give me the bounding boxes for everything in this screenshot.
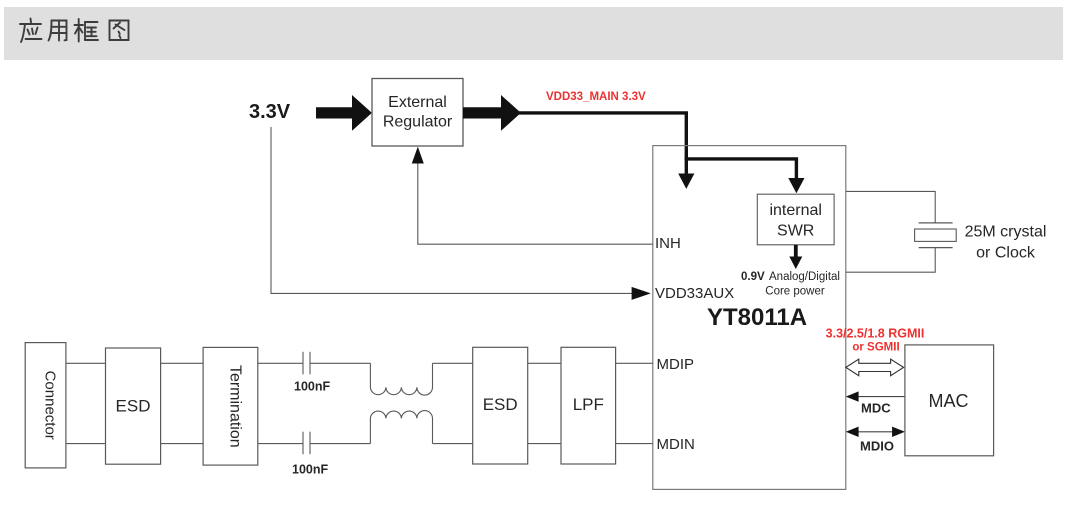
svg-text:MAC: MAC (929, 391, 969, 411)
svg-text:MDIO: MDIO (860, 439, 894, 454)
svg-text:Core power: Core power (765, 286, 825, 298)
svg-text:25M crystal: 25M crystal (965, 224, 1047, 241)
svg-text:Connector: Connector (42, 371, 59, 440)
svg-text:or SGMII: or SGMII (852, 342, 899, 354)
svg-text:3.3/2.5/1.8 RGMII: 3.3/2.5/1.8 RGMII (826, 327, 925, 341)
svg-text:VDD33_MAIN 3.3V: VDD33_MAIN 3.3V (546, 91, 646, 103)
svg-text:Analog/Digital: Analog/Digital (769, 271, 840, 283)
svg-text:Termination: Termination (226, 365, 243, 448)
svg-text:internal: internal (769, 202, 821, 219)
svg-text:ESD: ESD (116, 397, 151, 416)
svg-text:Regulator: Regulator (383, 114, 453, 131)
svg-text:INH: INH (655, 235, 681, 252)
svg-text:or Clock: or Clock (976, 245, 1036, 262)
svg-text:LPF: LPF (573, 395, 604, 414)
svg-text:MDIP: MDIP (657, 356, 695, 373)
svg-text:0.9V: 0.9V (741, 271, 765, 283)
svg-text:3.3V: 3.3V (249, 101, 291, 123)
svg-text:MDIN: MDIN (657, 436, 695, 453)
svg-text:External: External (388, 94, 447, 111)
svg-text:SWR: SWR (777, 222, 814, 239)
svg-text:MDC: MDC (861, 400, 891, 415)
svg-text:100nF: 100nF (292, 463, 328, 477)
svg-text:100nF: 100nF (294, 380, 330, 394)
svg-text:ESD: ESD (483, 395, 518, 414)
svg-text:YT8011A: YT8011A (707, 304, 807, 331)
svg-text:VDD33AUX: VDD33AUX (655, 285, 734, 302)
